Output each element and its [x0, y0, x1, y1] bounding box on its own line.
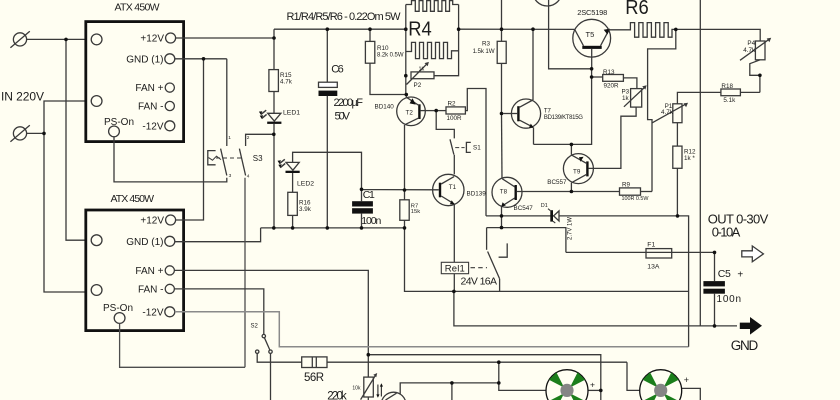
svg-text:FAN +: FAN +	[135, 83, 163, 94]
zener diode D1 line	[486, 215, 678, 217]
svg-text:T8: T8	[500, 189, 508, 196]
zener diode D1	[548, 209, 559, 223]
capacitor C5	[703, 281, 725, 326]
resistor R10	[365, 29, 406, 94]
svg-text:C6: C6	[331, 63, 344, 75]
svg-text:+: +	[737, 269, 743, 280]
wire fan2 left drop	[627, 362, 640, 390]
control ground bus	[261, 227, 405, 229]
transistor T8 BC547	[492, 177, 571, 216]
arrow output plus	[742, 246, 764, 262]
potentiometer P2	[407, 62, 435, 85]
terminal ATX1 +12V	[166, 33, 176, 43]
wire R3 node to T8 collector	[501, 114, 504, 179]
terminal ATX1 PS-On	[109, 126, 120, 137]
svg-text:GND: GND	[731, 338, 759, 353]
svg-text:10k: 10k	[352, 385, 361, 391]
switch S2	[256, 334, 273, 353]
svg-text:8.2k 0.5W: 8.2k 0.5W	[377, 52, 404, 58]
svg-text:R4: R4	[408, 17, 432, 40]
svg-text:BC557: BC557	[547, 179, 567, 186]
wire top edge to T5 base	[549, 0, 592, 69]
svg-text:1.5k 1W: 1.5k 1W	[473, 48, 495, 55]
wire fan return line	[368, 355, 601, 400]
wire R7 to relay rail	[405, 228, 689, 292]
wire series link down to ATX2 +12V	[176, 59, 204, 220]
terminal ATX1 input b	[91, 96, 102, 107]
resistor R1 comb (top, cut off)	[406, 1, 459, 12]
svg-text:2200µF: 2200µF	[334, 97, 364, 109]
svg-text:F1: F1	[647, 242, 655, 249]
wire ATX1 GND1 series link	[175, 58, 227, 60]
svg-text:BD139/KT815G: BD139/KT815G	[544, 115, 583, 121]
svg-text:+: +	[590, 380, 595, 390]
wire ATX1 +12V to bus	[176, 29, 274, 38]
svg-text:LED1: LED1	[283, 110, 300, 117]
svg-text:15k: 15k	[411, 209, 420, 215]
resistor R15	[269, 38, 279, 113]
svg-text:ATX 450W: ATX 450W	[111, 193, 155, 205]
svg-text:P2: P2	[414, 82, 422, 89]
wire T1 emitter to output ground	[454, 291, 737, 326]
svg-text:R18: R18	[721, 83, 733, 90]
svg-text:1k *: 1k *	[684, 155, 695, 162]
svg-text:T7: T7	[544, 109, 552, 115]
svg-text:+12V: +12V	[140, 34, 164, 45]
svg-text:0-10A: 0-10A	[712, 225, 741, 240]
svg-text:R13: R13	[603, 69, 615, 76]
relay Rel1 contact	[487, 228, 508, 292]
terminal ATX1 GND1	[165, 54, 175, 64]
switch S3 pole 1	[208, 149, 227, 176]
fan M1	[546, 370, 588, 400]
svg-text:T1: T1	[449, 184, 457, 191]
svg-text:T5: T5	[586, 30, 595, 39]
svg-text:BC547: BC547	[514, 205, 534, 212]
svg-text:100n: 100n	[717, 294, 742, 305]
svg-text:S1: S1	[473, 144, 481, 151]
resistor R18	[677, 89, 760, 104]
svg-text:R10: R10	[377, 45, 389, 52]
svg-text:24V 16A: 24V 16A	[461, 275, 498, 287]
resistor R3	[497, 0, 506, 114]
psu block ATX1	[86, 22, 184, 142]
wire P4 to R18	[759, 75, 761, 92]
fuse F1	[566, 249, 715, 258]
svg-text:GND (1): GND (1)	[126, 237, 163, 248]
terminal ATX2 +12V	[166, 215, 176, 225]
svg-text:C1: C1	[363, 189, 375, 201]
svg-text:S3: S3	[253, 154, 263, 163]
wire S3 pin4 down	[244, 178, 246, 368]
svg-text:2: 2	[247, 135, 250, 141]
svg-text:R3: R3	[482, 41, 491, 48]
svg-text:LED2: LED2	[297, 181, 314, 188]
transistor fan control (cut off at bottom)	[381, 383, 499, 400]
wire T5 base node down	[534, 69, 592, 145]
transistor T9 BC557	[563, 144, 593, 191]
svg-text:1: 1	[228, 135, 231, 141]
terminal ATX2 FAN+	[165, 266, 174, 275]
svg-text:1k: 1k	[419, 66, 425, 72]
wire R4 left vertical	[405, 5, 407, 95]
wire R6 tap down to R9 and P1 wiper	[648, 29, 676, 191]
resistor R7	[400, 190, 409, 228]
svg-text:BD140: BD140	[375, 103, 395, 110]
connector J2 (mains input bottom)	[10, 125, 29, 142]
svg-text:100R 0.5W: 100R 0.5W	[622, 196, 650, 202]
terminal ATX2 PS-On	[114, 313, 125, 324]
svg-text:100n: 100n	[361, 215, 381, 227]
led LED2 and resistor R16 branch	[278, 152, 362, 228]
svg-text:GND (1): GND (1)	[126, 54, 163, 65]
wire node to PSU2 input 1	[66, 39, 86, 240]
main positive bus right segment	[459, 28, 575, 30]
wire ATX2 FAN+ to thermistor column	[175, 270, 369, 400]
svg-text:4.7k: 4.7k	[743, 47, 756, 54]
wire S2 left contact to fan feed	[257, 353, 302, 362]
svg-text:5.1k: 5.1k	[723, 97, 736, 104]
terminal ATX1 FAN-	[165, 101, 174, 110]
wire ATX2 GND1 to control bus	[175, 228, 261, 242]
wire J1 to PSU1	[27, 38, 86, 40]
wire OUT node to C5	[714, 252, 716, 281]
transistor T7 BD139	[503, 29, 540, 144]
svg-text:FAN +: FAN +	[135, 266, 163, 277]
label S3 pins	[228, 135, 250, 180]
wire bus to P4	[676, 29, 760, 41]
terminal ATX2 -12V	[165, 307, 175, 317]
transistor T2 BD140	[397, 95, 437, 191]
wire ATX2 FAN- to S2	[175, 289, 264, 335]
svg-text:920R: 920R	[604, 83, 620, 90]
svg-text:2SC5198: 2SC5198	[577, 8, 607, 17]
wire fan2 right	[682, 388, 701, 400]
switch S1	[436, 111, 471, 175]
svg-text:D1: D1	[541, 203, 548, 209]
potentiometer P3	[624, 85, 647, 107]
svg-text:56R: 56R	[304, 372, 324, 384]
svg-text:T2: T2	[406, 109, 414, 116]
wire P3 bottom to T9 base	[589, 107, 637, 168]
svg-text:FAN -: FAN -	[138, 102, 164, 113]
svg-text:3: 3	[229, 173, 232, 179]
svg-text:1k: 1k	[622, 95, 630, 102]
svg-text:R1/R4/R5/R6 - 0.22Om 5W: R1/R4/R5/R6 - 0.22Om 5W	[287, 11, 402, 23]
terminal ATX2 input b	[91, 285, 102, 296]
resistor R2	[436, 89, 486, 216]
svg-text:100R: 100R	[447, 115, 463, 122]
svg-text:Rel1: Rel1	[445, 263, 465, 274]
wire ATX2 -12V rail	[175, 312, 689, 347]
transistor T5 2SC5198	[573, 19, 628, 69]
svg-text:PS-On: PS-On	[104, 117, 134, 128]
capacitor C6	[319, 29, 338, 228]
wire vertical mains 2	[44, 101, 86, 292]
terminal ATX1 -12V	[165, 121, 175, 131]
wire fan1 left drop	[499, 362, 546, 390]
svg-text:-12V: -12V	[142, 307, 163, 318]
main positive bus left segment	[274, 28, 406, 30]
relay Rel1 coil box	[441, 262, 487, 273]
psu block ATX2	[86, 210, 184, 331]
capacitor C1	[352, 189, 373, 228]
fan feed line 56R	[327, 361, 627, 363]
svg-text:R2: R2	[448, 101, 457, 108]
svg-text:50V: 50V	[335, 110, 351, 122]
transistor T1 BD139	[433, 174, 464, 291]
fan M2	[640, 370, 682, 400]
svg-text:S2: S2	[251, 324, 259, 330]
svg-text:13A: 13A	[647, 264, 660, 271]
terminal ATX1 FAN+	[165, 83, 174, 92]
terminal ATX1 input a	[91, 34, 102, 45]
wire S3 link dashed	[216, 157, 243, 159]
long vertical wire right column	[699, 0, 701, 326]
wire relay common to fuse	[487, 228, 566, 253]
resistor R4 comb	[406, 42, 459, 58]
resistor R6 comb	[628, 23, 676, 38]
wire fan1 right	[588, 389, 601, 391]
wire C1 node to T1 base	[362, 189, 439, 191]
terminal ATX2 input a	[91, 235, 102, 246]
potentiometer P1	[652, 103, 688, 123]
resistor R13	[592, 75, 637, 89]
svg-text:+12V: +12V	[140, 216, 164, 227]
potentiometer P4	[740, 38, 771, 76]
connector J1 (mains input top)	[10, 31, 29, 48]
wire GND1 to S3 pin1	[226, 59, 228, 146]
svg-text:IN 220V: IN 220V	[1, 90, 44, 104]
resistor 56R	[302, 357, 327, 368]
thermistor 10k	[361, 373, 383, 400]
svg-text:4.7k: 4.7k	[280, 79, 293, 86]
wire T8 emitter node	[501, 216, 503, 228]
resistor R9	[571, 188, 652, 195]
led LED1	[259, 110, 282, 228]
svg-text:BD139: BD139	[467, 190, 487, 197]
terminal ATX2 GND1	[165, 236, 175, 246]
svg-text:220k: 220k	[327, 391, 347, 400]
wire R4 right vertical	[434, 5, 459, 76]
wire ATX1 PS-On to S3 pin3	[114, 137, 227, 182]
svg-text:4.7k: 4.7k	[661, 109, 674, 116]
svg-text:+: +	[684, 375, 689, 385]
svg-text:4: 4	[247, 174, 250, 180]
svg-text:C5: C5	[718, 268, 731, 280]
wire S2 blade down	[270, 353, 272, 400]
svg-text:ATX 450W: ATX 450W	[115, 2, 160, 14]
transistor Q6 (cut off at top edge)	[533, 0, 562, 6]
wire ATX2 PS-On down	[120, 323, 245, 367]
svg-text:3.9k: 3.9k	[299, 206, 312, 213]
wire J2 to vertical	[27, 132, 44, 134]
svg-text:2.7V 1W: 2.7V 1W	[568, 217, 574, 240]
wire D1 node to -12V column	[678, 216, 689, 347]
svg-text:-12V: -12V	[142, 121, 163, 132]
svg-text:PS-On: PS-On	[103, 303, 133, 314]
terminal ATX2 FAN-	[165, 284, 174, 293]
switch S3 pole 2	[239, 134, 273, 175]
svg-text:R6: R6	[625, 0, 649, 19]
svg-text:R9: R9	[622, 181, 631, 188]
arrow output gnd	[740, 317, 762, 335]
svg-text:FAN -: FAN -	[138, 284, 164, 295]
svg-text:T9: T9	[573, 169, 581, 176]
resistor R12	[673, 123, 682, 216]
